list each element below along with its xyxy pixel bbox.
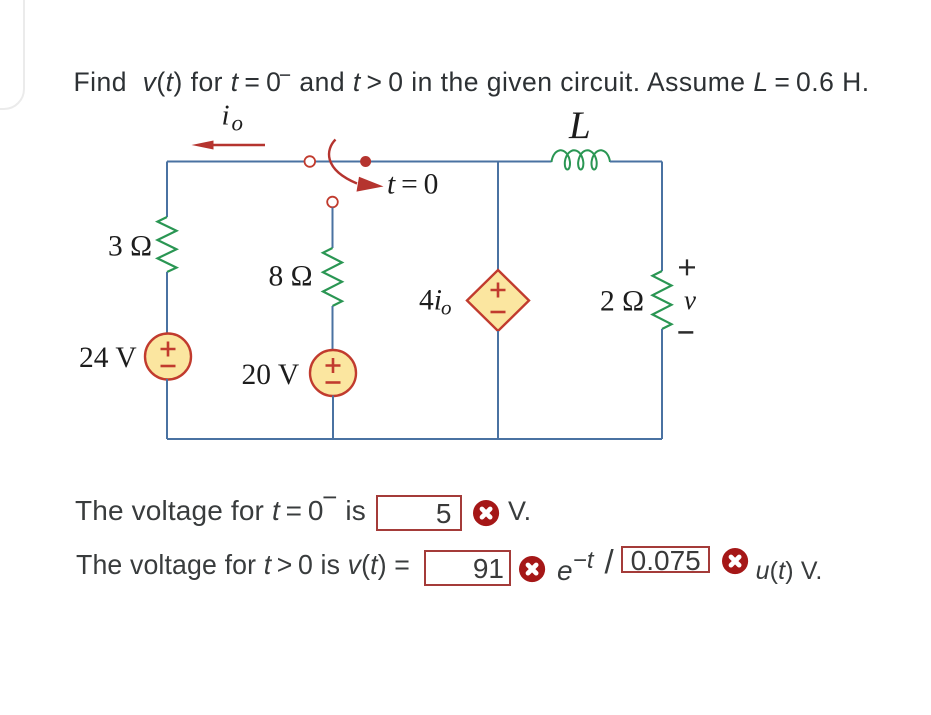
wire: left vertical bottom [166,379,168,439]
answer line 2 [76,551,410,579]
resistor R2 8ohm [323,248,342,306]
inductor L1 coil [552,150,611,169]
wire: left vertical top [166,162,168,218]
answer line 1 [75,497,366,525]
incorrect icon 3 [722,548,750,576]
svg-text:v: v [684,285,696,315]
wire: left vertical middle [166,272,168,334]
title [74,67,870,98]
switch SW1 pivot contact circle [305,156,316,167]
incorrect icon 2 [519,556,547,584]
wire: right vertical top [661,162,663,272]
current io arrow [192,141,266,150]
svg-text:4i: 4i [419,285,442,317]
wire: middle branch below source [332,396,334,440]
svg-text:L: L [568,104,591,147]
wire: middle branch upper [332,208,334,249]
switch SW1 motion arc arrow [329,140,383,192]
switch SW1 lower contact circle [327,197,338,208]
voltage source V1 24V [145,334,191,380]
dependent source D1 4io diamond [467,270,529,331]
resistor R1 3ohm [158,217,177,272]
svg-text:2 Ω: 2 Ω [600,285,644,317]
svg-text:8 Ω: 8 Ω [269,261,313,293]
wire: dependent source branch lower [497,331,499,439]
voltage source V2 20V [310,350,356,396]
svg-text:o: o [441,296,452,320]
label v plus [679,259,695,275]
wire: dependent source branch upper [497,162,499,271]
wire: top right horizontal [610,161,662,163]
wire: middle branch lower [332,306,334,350]
incorrect icon 1 [473,500,501,528]
wire: bottom horizontal [167,438,662,440]
svg-text:3 Ω: 3 Ω [108,231,152,263]
label io [222,100,244,136]
wire: right vertical bottom [661,329,663,439]
svg-text:20 V: 20 V [242,359,300,391]
label 4io [419,285,452,320]
resistor R3 2ohm [653,271,672,329]
switch SW1 closed contact dot [360,156,371,167]
panel corner (top-left rounded card edge) [0,0,25,110]
svg-text:i: i [222,100,230,132]
svg-text:o: o [232,111,244,136]
wire: top left horizontal [167,161,552,163]
svg-text:24 V: 24 V [79,342,137,374]
svg-text:t = 0: t = 0 [387,169,438,201]
label v minus [678,331,693,334]
